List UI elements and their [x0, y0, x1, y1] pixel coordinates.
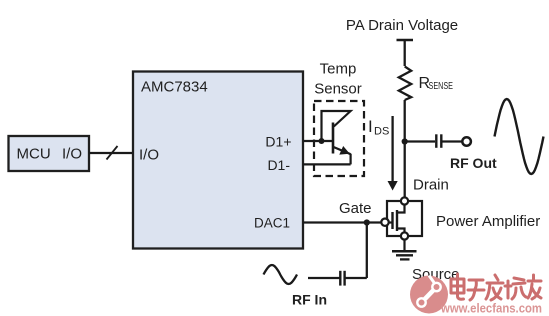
svg-text:I/O: I/O	[62, 146, 82, 163]
svg-text:AMC7834: AMC7834	[141, 79, 208, 96]
svg-text:www.elecfans.com: www.elecfans.com	[440, 301, 542, 316]
svg-text:PA Drain Voltage: PA Drain Voltage	[346, 17, 458, 34]
svg-text:RF Out: RF Out	[450, 155, 497, 171]
svg-text:RF In: RF In	[292, 291, 327, 307]
svg-text:Temp: Temp	[320, 61, 357, 78]
svg-text:DS: DS	[374, 126, 389, 138]
svg-text:MCU: MCU	[17, 146, 51, 163]
svg-text:Sensor: Sensor	[314, 81, 362, 98]
svg-text:DAC1: DAC1	[254, 216, 290, 231]
svg-text:D1+: D1+	[265, 134, 291, 150]
svg-text:Power Amplifier: Power Amplifier	[436, 213, 540, 230]
svg-text:I: I	[368, 117, 373, 136]
svg-text:I/O: I/O	[139, 147, 159, 164]
svg-text:SENSE: SENSE	[429, 81, 454, 92]
svg-text:Gate: Gate	[339, 200, 372, 217]
svg-text:Drain: Drain	[413, 176, 449, 193]
svg-text:D1-: D1-	[267, 157, 290, 173]
